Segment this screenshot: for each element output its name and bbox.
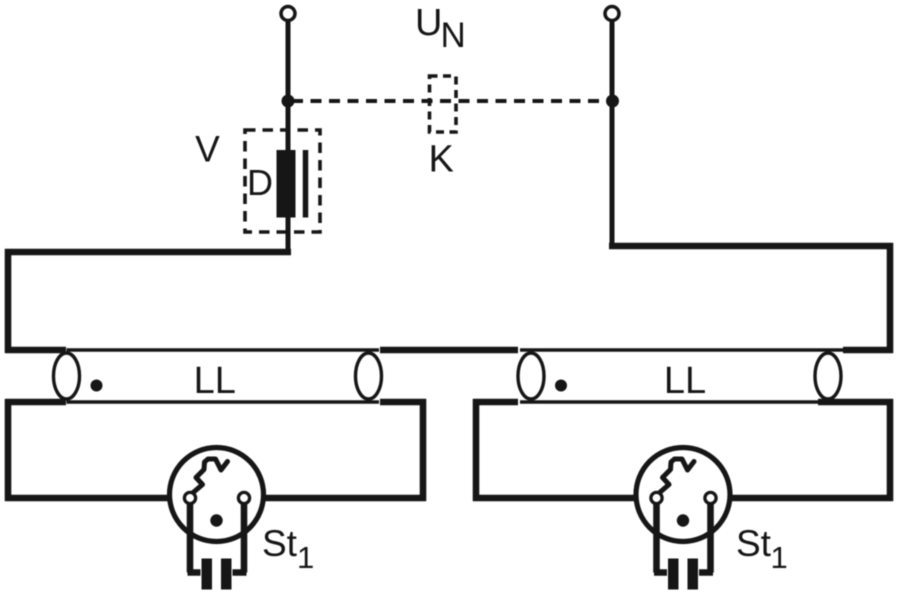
svg-text:V: V <box>195 129 220 170</box>
svg-text:1: 1 <box>297 540 314 575</box>
svg-text:LL: LL <box>194 360 236 402</box>
svg-text:St: St <box>262 523 298 564</box>
svg-text:St: St <box>736 523 772 564</box>
svg-text:N: N <box>441 16 466 55</box>
svg-text:U: U <box>415 2 442 44</box>
svg-text:1: 1 <box>771 540 788 575</box>
svg-text:D: D <box>247 162 273 203</box>
svg-text:K: K <box>429 139 454 181</box>
svg-text:LL: LL <box>664 360 706 402</box>
